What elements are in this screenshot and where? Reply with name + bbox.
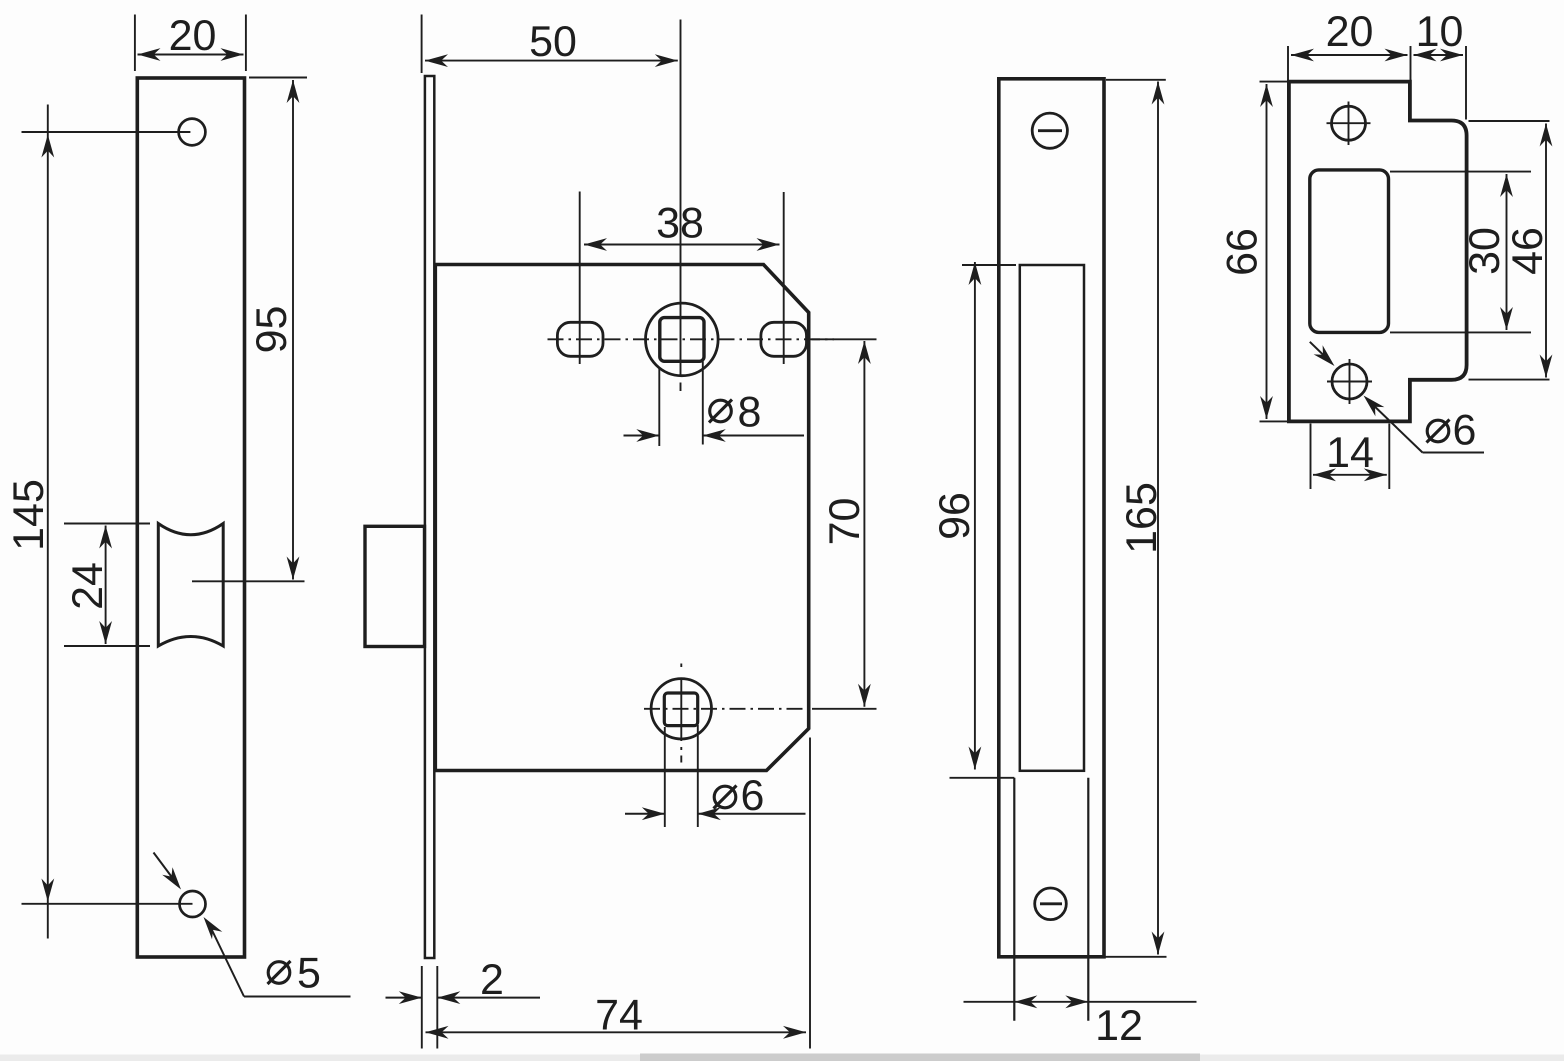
dimension 46 line xyxy=(1545,124,1547,378)
dimension 50 extension line left xyxy=(421,15,423,74)
view 3: top screw with slot xyxy=(1032,113,1067,148)
horizontal centerline through hole row xyxy=(548,338,835,340)
dimension 95 extension line top xyxy=(249,77,307,79)
svg-text:70: 70 xyxy=(821,498,869,546)
view 2: left oval hole xyxy=(557,322,603,356)
dimension 145 extension line top through hole xyxy=(22,131,191,133)
svg-text:50: 50 xyxy=(529,18,577,66)
dimension 20 (view 1) xyxy=(138,54,244,56)
lower hole vertical centerline xyxy=(680,664,682,668)
dimension 96 extension line bottom xyxy=(950,777,1015,779)
svg-text:46: 46 xyxy=(1504,227,1552,275)
paper edge shadow band xyxy=(0,1055,1564,1061)
dimension 165 line xyxy=(1157,82,1159,955)
svg-text:20: 20 xyxy=(1326,8,1374,56)
dimension 145 extension line bottom through hole xyxy=(22,903,193,905)
view 3: lock case inner rectangle xyxy=(1020,265,1084,771)
view 1: bottom screw hole xyxy=(180,891,206,917)
view 2: right oval hole xyxy=(761,322,807,356)
dimension 46 extension lines xyxy=(1469,120,1550,122)
dimension dia 6 extension lines (view 2) xyxy=(664,727,666,827)
svg-text:165: 165 xyxy=(1118,482,1166,554)
view 4: bottom screw hole with centermark xyxy=(1332,364,1367,399)
view 2: lower spindle square hole with circle xyxy=(651,679,711,739)
spindle axis centerline vertical xyxy=(680,20,682,377)
leader arrow lower and tail for dia 6 (view 4) xyxy=(1364,396,1385,417)
dimension 70 extension line top xyxy=(812,338,877,340)
dimension 30 extension lines xyxy=(1390,171,1531,173)
view 3: bottom screw with slot xyxy=(1035,888,1067,920)
svg-text:8: 8 xyxy=(738,389,762,437)
dimension 66 line xyxy=(1266,84,1268,419)
view 4: top screw hole with centermark xyxy=(1332,106,1366,140)
view 2: latch bolt protruding xyxy=(365,526,425,646)
dimension 38 extension line right xyxy=(783,192,785,364)
view 4: strike plate outline with lip xyxy=(1289,82,1467,422)
view 2: lock body outline with chamfered right corners xyxy=(435,265,808,771)
dimension 50 line xyxy=(425,60,678,62)
svg-text:66: 66 xyxy=(1219,228,1267,276)
svg-text:145: 145 xyxy=(5,479,53,551)
dimension 20 extension lines (view 4) xyxy=(1287,46,1289,80)
view 4: latch opening rounded rectangle xyxy=(1310,170,1389,333)
view 3: case step edge right xyxy=(1087,778,1089,1021)
dimension 95 extension line bottom at latch center xyxy=(192,580,305,582)
dimension 24 line xyxy=(105,526,107,645)
view 2: spindle square hole with circle xyxy=(646,303,719,376)
dimension 14 extension lines xyxy=(1310,424,1312,490)
dimension 10 extension line right xyxy=(1465,46,1467,120)
lower hole horizontal centerline xyxy=(644,708,812,710)
svg-text:20: 20 xyxy=(169,12,217,60)
dimension 66 extension lines xyxy=(1260,81,1288,83)
svg-text:24: 24 xyxy=(64,562,112,610)
label dia 8 xyxy=(710,400,732,422)
view 1: top screw hole xyxy=(179,119,206,146)
dimension 30 line xyxy=(1506,174,1508,330)
svg-text:74: 74 xyxy=(595,992,643,1040)
view 1: faceplate front outline xyxy=(137,78,244,957)
dimension 2 extension lines xyxy=(421,966,423,1049)
leader arrow lower and tail for dia 5 xyxy=(204,917,223,939)
dimension 74 line xyxy=(426,1031,807,1033)
view 3: faceplate rear outline xyxy=(999,79,1104,957)
svg-text:38: 38 xyxy=(656,200,704,248)
label dia 6 (view 2) xyxy=(714,786,736,808)
svg-text:96: 96 xyxy=(931,492,979,540)
svg-text:14: 14 xyxy=(1326,429,1374,477)
dimension 14 line xyxy=(1313,474,1387,476)
svg-text:2: 2 xyxy=(480,956,504,1004)
dimension 38 extension line left xyxy=(579,192,581,365)
dimension 145 line xyxy=(47,105,49,939)
dimension dia 6 outside arrows (view 2) xyxy=(625,813,665,815)
svg-text:5: 5 xyxy=(297,950,321,998)
view 2: faceplate strip edge-on xyxy=(425,76,434,958)
dimension 96 extension line top xyxy=(962,264,1016,266)
dimension 165 extension line top xyxy=(1106,79,1166,81)
dimension 70 line xyxy=(863,341,865,707)
label dia 5 xyxy=(268,962,290,984)
leader arrow upper for dia 6 (view 4) xyxy=(1310,342,1328,359)
dimension 20 line (view 4) xyxy=(1291,54,1408,56)
dimension 10 line xyxy=(1414,54,1464,56)
dimension 38 line xyxy=(584,244,780,246)
label dia 6 (view 4) xyxy=(1427,420,1449,442)
view 1: latch opening with concave faces xyxy=(158,524,223,647)
dimension 20 extension lines (view 1) xyxy=(134,15,136,72)
dimension 74 extension line right xyxy=(809,738,811,1049)
svg-text:6: 6 xyxy=(1453,407,1477,455)
svg-text:30: 30 xyxy=(1461,227,1509,275)
dimension 24 extension line top xyxy=(64,523,150,525)
svg-text:95: 95 xyxy=(248,306,296,354)
dimension dia 8 extension lines xyxy=(658,368,660,446)
dimension 12 line xyxy=(964,1001,1197,1003)
view 3: case step edge left xyxy=(1013,778,1015,1021)
dimension 165 extension line bottom xyxy=(1104,956,1167,958)
svg-text:12: 12 xyxy=(1095,1002,1143,1050)
leader arrow upper for hole dia 5 xyxy=(154,853,175,881)
svg-text:10: 10 xyxy=(1416,8,1464,56)
dimension 24 extension line bottom xyxy=(64,645,150,647)
dimension 95 line xyxy=(292,80,294,580)
dimension 96 line xyxy=(974,262,976,770)
dimension dia 8 outside arrows xyxy=(624,435,660,437)
svg-text:6: 6 xyxy=(741,772,765,820)
dimension 2 outside arrows xyxy=(386,997,422,999)
